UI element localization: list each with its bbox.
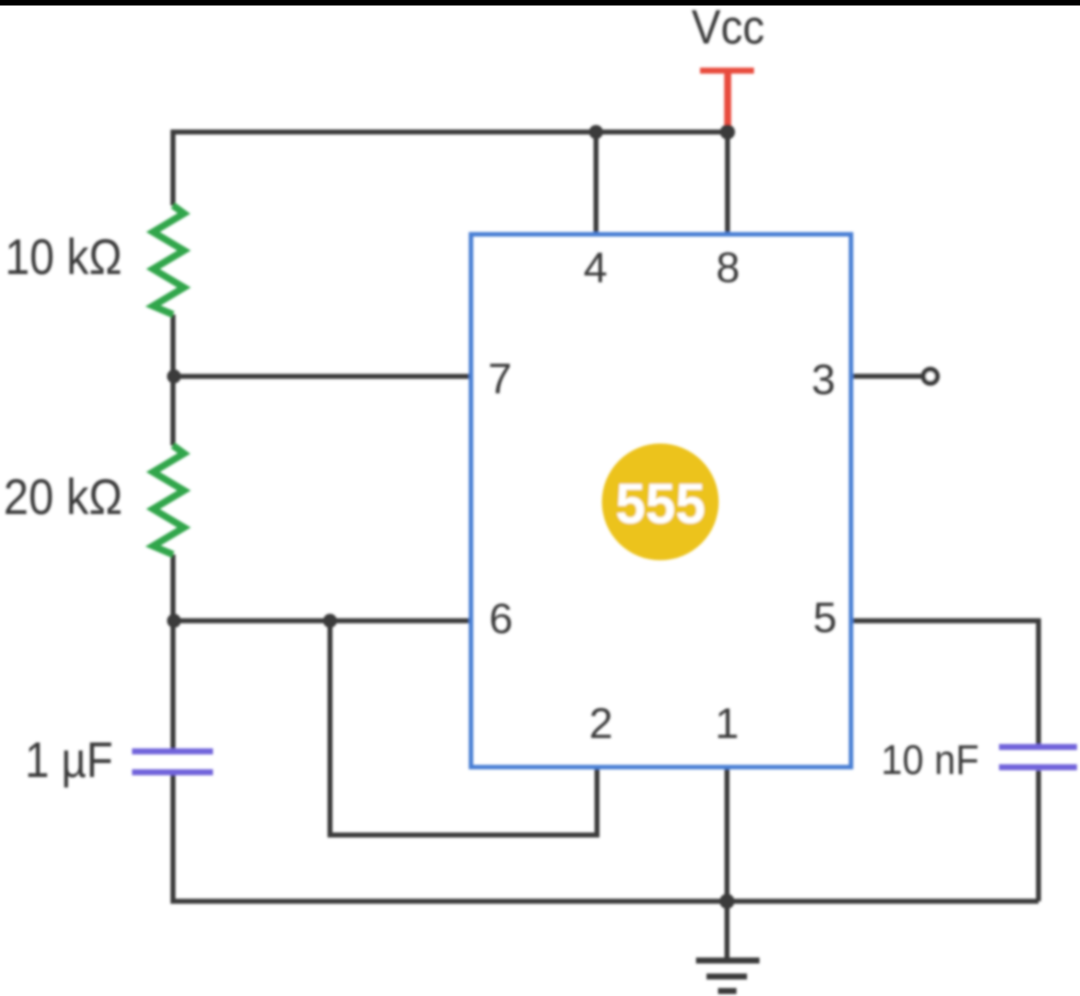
svg-text:3: 3 [812, 356, 836, 404]
svg-text:5: 5 [813, 594, 837, 642]
svg-text:8: 8 [716, 244, 740, 292]
svg-text:6: 6 [489, 595, 513, 643]
svg-text:10 kΩ: 10 kΩ [5, 229, 122, 285]
svg-text:4: 4 [584, 244, 608, 292]
svg-text:1: 1 [715, 700, 739, 748]
svg-text:Vcc: Vcc [692, 2, 765, 55]
svg-text:1 µF: 1 µF [25, 732, 113, 788]
svg-text:555: 555 [616, 472, 706, 536]
svg-text:2: 2 [589, 700, 613, 748]
svg-text:10 nF: 10 nF [881, 736, 979, 783]
svg-text:20 kΩ: 20 kΩ [4, 469, 123, 525]
svg-text:7: 7 [488, 355, 512, 403]
